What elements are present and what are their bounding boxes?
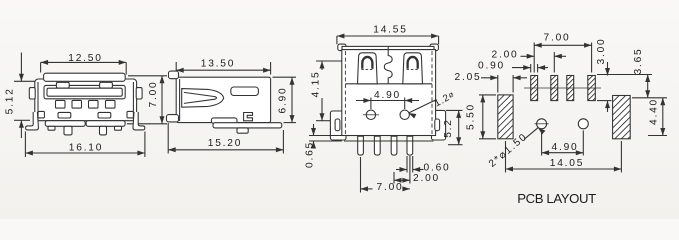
front view left leg [26,112,39,130]
rear view pin 4 [407,136,413,155]
pcb dim 4.90 extension lines [542,131,584,156]
front view under-rail bump left [48,126,55,130]
pcb dim 0.90 extension lines [531,64,538,73]
svg-text:PCB LAYOUT: PCB LAYOUT [517,191,596,206]
front view contact 3 [89,100,99,108]
rear view pin 3 [391,136,397,155]
front view dim 16.10 extension lines [25,132,144,158]
pcb dim 4.40 [648,98,665,136]
front view dim 12.50 [41,53,127,65]
front view shell inner walls [38,82,133,121]
side view top slot [231,87,259,96]
rear view dim 4.15 [310,61,324,121]
rear view bottom plate line [344,140,434,142]
front view dim 12.50 extension lines [41,62,127,74]
pcb leader 2x dia 1.50 [487,128,545,170]
front view top dimple left [56,82,69,88]
pcb dim 2.00 extension line [553,52,555,73]
side view dim 6.90 extension lines [273,77,297,122]
svg-text:2.05: 2.05 [454,72,481,83]
pcb dim 3.00 extension lines [597,75,652,101]
pcb dim 3.65 extension line [632,97,667,99]
svg-text:5.50: 5.50 [465,103,476,130]
pcb pin pad 3 [542,76,602,101]
front view solder tab left [64,126,72,135]
side view clip detail [244,113,253,121]
front view shell body [35,79,137,121]
rear view hidden wall lines [345,51,432,134]
rear view leader 1.2 dia [409,89,457,119]
side view plate bump [211,118,237,123]
side view top-left tab [169,71,179,79]
front view dim 5.12 extension lines [14,81,44,120]
pcb hole right [578,119,588,129]
side view plate leg [237,128,248,133]
pcb dim 3.65 [633,47,650,97]
rear view left peg hole [363,110,379,119]
front view contact 1 [56,100,66,108]
front view contact 2 [72,100,82,108]
pcb dim 2.05 [454,72,527,83]
rear view spring base line [345,83,432,85]
front view bottom rail left [45,121,85,127]
pcb layout title [517,191,596,206]
side view dim 15.20 extension lines [168,123,283,154]
svg-text:4.15: 4.15 [310,70,321,97]
pcb dim 4.40 extension line [648,135,667,137]
front view dim 7.00 extension lines [127,76,167,124]
front view left flange tab [29,88,35,99]
pcb dim 7.00 extension lines [534,43,591,73]
rear view ear slot left [335,119,340,131]
front view latch square right [127,111,133,118]
svg-text:4.90: 4.90 [551,142,578,153]
front view tongue inner plate [47,88,122,96]
rear view dim 4.90 extension lines [371,98,405,110]
rear view flange bar [342,46,434,49]
rear view dim 0.60 extension lines [407,156,413,173]
front view dim 5.12 [5,53,24,139]
pcb dim 14.05 [506,158,622,172]
front view right leg [133,112,145,130]
rear view right ear [432,110,446,140]
rear view left spring tower [358,53,378,84]
pcb pin pad 1 [506,76,566,101]
pcb dim 2.00 [491,50,566,61]
svg-text:15.20: 15.20 [208,138,243,149]
pcb dim 3.00 [596,37,610,112]
svg-text:12.50: 12.50 [68,53,103,64]
svg-text:16.10: 16.10 [69,143,104,154]
rear view pin 2 [374,136,380,155]
front view mid dimple left [58,112,71,118]
svg-text:0.65: 0.65 [305,141,316,168]
pcb hole left [535,119,549,129]
rear view dim 4.90 [356,90,419,103]
pcb shell pad left [454,95,563,139]
svg-text:14.05: 14.05 [550,158,585,169]
front view bottom rail right [86,121,125,127]
front view top dimple right [100,82,113,88]
front view tongue [44,85,125,98]
front view right flange tab [136,88,142,99]
svg-text:7.00: 7.00 [376,182,403,193]
side view bottom plate [213,123,282,128]
rear view body [342,50,436,136]
side view dim 15.20 [168,138,283,152]
svg-text:7.00: 7.00 [543,32,570,43]
side view body [176,77,270,122]
svg-text:0.60: 0.60 [423,163,450,174]
pcb dim 2.05 extension lines [498,75,513,93]
rear view dim 2.00 [394,173,440,184]
rear view dim 5.2 [443,110,461,144]
rear view dim 0.65 [305,124,317,168]
pcb dim 5.50 [465,95,485,139]
front view dim 7.00 [148,76,165,124]
front view shell lid [44,73,126,81]
svg-text:2.00: 2.00 [413,173,440,184]
front view contact 4 [106,100,116,108]
svg-text:14.55: 14.55 [373,24,408,35]
rear view ear slot right [435,119,440,131]
pcb pin pad 4 [563,76,623,101]
svg-text:4.90: 4.90 [374,90,401,101]
pcb dim 4.90 [542,142,584,155]
front view under-rail bump right [115,126,122,130]
svg-text:6.90: 6.90 [278,86,289,113]
rear view dim 14.55 extension lines [337,36,439,44]
rear view flange hook left [338,44,346,51]
pcb dim 0.90 [478,61,548,72]
svg-text:2.00: 2.00 [491,50,518,61]
pcb pad centerline [524,87,601,89]
rear view dim 2.00 extension lines [394,156,410,184]
svg-text:3.65: 3.65 [633,47,644,74]
rear view dim 0.65 extension lines [309,136,342,142]
side view dim 13.50 [176,59,270,73]
svg-text:7.00: 7.00 [148,80,159,107]
side view latch spring [182,89,224,108]
rear view center seam notch [384,47,392,84]
side view dim 13.50 extension lines [176,62,270,75]
svg-text:5.2: 5.2 [443,118,454,138]
rear view pin 1 [358,136,364,155]
front view latch square left [38,111,44,118]
pcb shell pad right [569,96,677,139]
rear view flange hook right [430,44,438,51]
pcb pin pad 2 [526,76,586,101]
front view solder tab right [100,126,107,135]
svg-text:13.50: 13.50 [201,59,236,70]
svg-text:5.12: 5.12 [5,87,16,114]
rear view right spring tower [403,53,423,84]
svg-text:3.00: 3.00 [596,37,607,64]
rear view left ear [330,111,346,140]
rear view dim 4.15 extension lines [316,61,342,121]
side view inner wall line [179,79,181,121]
rear view dim 0.60 [396,163,451,174]
front view mid dimple right [98,112,111,118]
rear view right peg hole [400,110,409,119]
rear view dim 7.00 extension lines [360,157,362,193]
front view dim 16.10 [25,143,144,156]
rear view dim 7.00 [361,182,410,193]
side view dim 6.90 [278,77,295,122]
pcb dim 5.50 extension lines [479,95,496,139]
rear view dim 5.2 extension lines [446,110,463,144]
pcb dim 14.05 extension lines [506,141,622,173]
side view bottom-left tab [167,115,179,122]
svg-text:0.90: 0.90 [478,61,505,72]
pcb dim 7.00 [534,32,591,48]
svg-text:4.40: 4.40 [648,98,659,125]
rear view dim 14.55 [337,24,439,38]
